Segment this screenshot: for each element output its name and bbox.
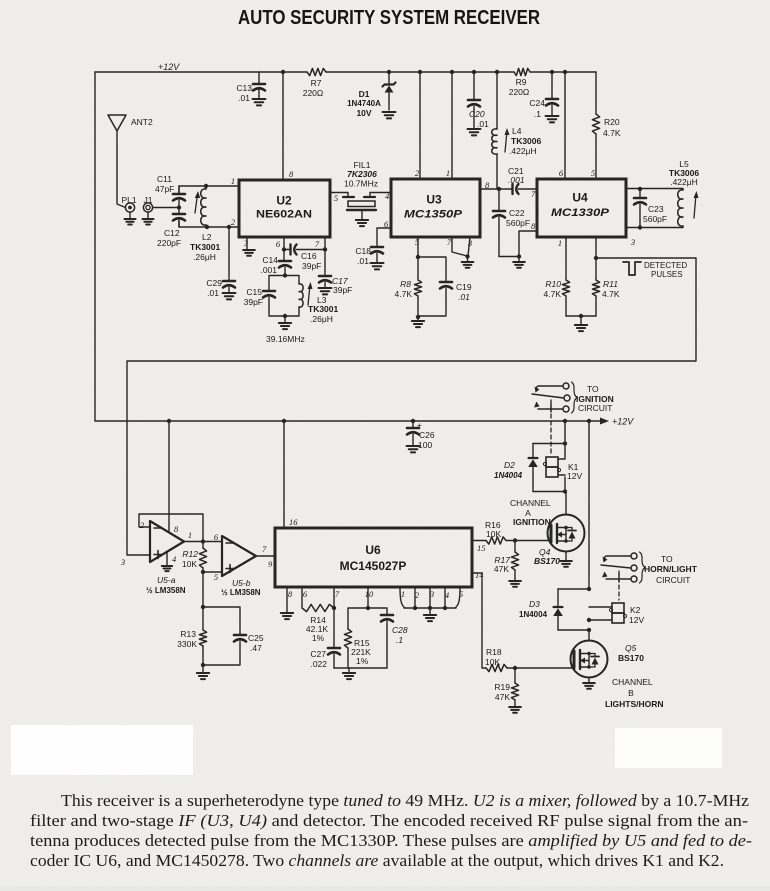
svg-text:1N4004: 1N4004 [494,471,523,480]
svg-text:U3: U3 [426,193,442,207]
svg-text:12V: 12V [629,615,644,625]
resistor R16 10K [485,520,506,544]
U4 pin numbers [531,168,635,248]
svg-text:3: 3 [630,237,635,247]
svg-text:C18: C18 [355,246,371,256]
ground for tank [279,316,291,329]
svg-text:L4: L4 [512,126,522,136]
switch horn/light contacts [601,552,645,583]
capacitor C23 560pF [634,189,667,228]
svg-text:10V: 10V [356,108,371,118]
svg-text:R8: R8 [400,279,411,289]
svg-text:PULSES: PULSES [651,270,683,279]
svg-text:14: 14 [475,570,484,580]
svg-text:K2: K2 [630,605,641,615]
svg-text:C20: C20 [469,109,485,119]
wire U3 pin 8 node [480,188,499,190]
svg-text:.022: .022 [310,659,327,669]
ground for C26 [407,446,420,452]
svg-text:100: 100 [418,440,432,450]
wire +12V top rail [95,71,596,73]
wire U2 pin 3 to ground [246,237,248,249]
wire R10/R11 bottoms [566,315,596,317]
inductor L3 TK3001 .26uH [299,282,339,324]
svg-text:1N4004: 1N4004 [519,610,548,619]
svg-text:.1: .1 [534,109,541,119]
svg-text:.001: .001 [508,175,525,185]
transistor Q4 BS170 MOSFET [534,515,585,567]
capacitor C18 .01 [355,228,391,266]
svg-text:1%: 1% [312,633,325,643]
svg-text:C24: C24 [529,98,545,108]
wire U5-a output [184,541,222,543]
ground for R8/C19 [412,317,424,327]
inductor L4 TK3006 .422uH [492,72,542,189]
capacitor C20 .01 [468,72,489,129]
svg-text:4.7K: 4.7K [603,128,621,138]
svg-text:10.7MHz: 10.7MHz [344,179,378,189]
resistor R15 221K 1% [344,629,371,668]
wire detected pulses to lower section [127,258,696,555]
svg-text:1: 1 [188,530,192,540]
svg-text:220Ω: 220Ω [509,87,530,97]
svg-text:C22: C22 [509,208,525,218]
svg-text:330K: 330K [177,639,197,649]
resistor R11 4.7K [592,258,619,316]
svg-text:U2: U2 [276,194,292,208]
wire Q5 source to ground [588,678,590,683]
svg-text:39pF: 39pF [302,261,321,271]
label CHANNEL A IGNITION [510,498,551,527]
svg-text:7K2306: 7K2306 [347,169,377,179]
svg-text:.26μH: .26μH [310,314,333,324]
svg-text:15: 15 [477,543,486,553]
svg-text:.01: .01 [207,288,219,298]
ground for J1 [142,212,153,224]
ground for U6 pins 1-5 [424,608,436,621]
U2 pin numbers [231,169,338,249]
svg-text:5: 5 [214,572,218,582]
wire U3 pin 2 to rail [419,72,421,179]
svg-text:C19: C19 [456,282,472,292]
wire 39.16MHz tank loop [269,276,299,317]
resistor R20 4.7K [592,72,620,179]
svg-text:NE602AN: NE602AN [256,209,312,221]
svg-text:TK3001: TK3001 [190,242,221,252]
svg-text:16: 16 [289,517,298,527]
wire R16 to Q4 gate [515,540,549,542]
wire J1 to C11/C12 node [153,207,179,209]
dashed link horn switch to K2 [618,571,620,600]
capacitor C24 .1 [529,72,558,119]
svg-text:R10: R10 [545,279,561,289]
svg-text:TO: TO [661,554,673,564]
capacitor C14 .001 [260,250,291,276]
svg-text:MC145027P: MC145027P [340,559,407,573]
wire U2 pin 6 down [283,237,285,250]
svg-text:R19: R19 [494,682,510,692]
wire U5-a feedback loop [139,514,203,542]
svg-text:CIRCUIT: CIRCUIT [578,403,612,413]
ground for R19 [509,707,521,713]
svg-text:C26: C26 [419,430,435,440]
svg-text:MC1350P: MC1350P [404,209,463,221]
resistor R9 220ohm [509,68,530,97]
wire U6 pin 15 out [472,540,515,542]
caption paragraph [30,791,752,870]
svg-text:.422μH: .422μH [509,146,537,156]
wire L4 bottom to node [497,188,499,190]
svg-text:C29: C29 [206,278,222,288]
wire C11 top to U2 pin 1 [179,186,239,194]
svg-text:D3: D3 [529,599,540,609]
svg-text:coder IC U6, and MC1450278. Tw: coder IC U6, and MC1450278. Two channels… [30,851,724,870]
svg-text:R20: R20 [604,117,620,127]
wire detected pulses node [595,237,597,258]
connector PL1 [121,195,136,212]
wire K1 branch top [533,421,565,459]
ground for C20 [468,129,481,135]
wire U6 pin 7 down [333,587,335,608]
svg-text:.001: .001 [260,265,277,275]
svg-text:This receiver is a superhetero: This receiver is a superheterodyne type … [61,791,749,810]
svg-text:+12V: +12V [612,417,634,427]
svg-text:R11: R11 [603,279,618,289]
svg-text:220Ω: 220Ω [303,88,324,98]
wire C27 bottom rail [334,667,387,669]
svg-text:4.7K: 4.7K [602,289,620,299]
capacitor C17 39pF [319,250,352,296]
ground for U5-a pin 4 [162,552,172,571]
svg-text:.1: .1 [396,635,403,645]
svg-text:R9: R9 [516,77,527,87]
svg-text:BS170: BS170 [534,556,560,566]
capacitor C26 100 electrolytic [407,421,435,450]
dashed link ignition switch to K1 [550,400,552,455]
wire K2 tabs to rail [589,607,612,620]
svg-text:U4: U4 [572,191,588,205]
svg-text:BS170: BS170 [618,653,644,663]
svg-text:C15: C15 [246,287,262,297]
svg-text:DETECTED: DETECTED [644,261,687,270]
capacitor C25 .47 [203,607,264,665]
whiteout rectangle right [615,728,722,768]
ground for U4 pin 8 [513,257,525,268]
ground for Q4 [560,561,572,567]
ground for C17 [319,288,332,294]
tank C23/L5 loop [626,189,683,228]
resistor R12 10K [182,542,207,573]
svg-text:LIGHTS/HORN: LIGHTS/HORN [605,699,664,709]
svg-text:J1: J1 [144,195,153,205]
svg-text:4.7K: 4.7K [395,289,413,299]
svg-text:ANT2: ANT2 [131,117,153,127]
IC U6 MC145027P [275,528,472,587]
wire D3 bottom branch [558,629,589,631]
svg-text:CHANNEL: CHANNEL [612,677,653,687]
svg-text:TO: TO [587,384,599,394]
capacitor C28 .1 [381,615,408,668]
svg-text:.01: .01 [357,256,369,266]
svg-text:10: 10 [365,589,374,599]
svg-text:R13: R13 [180,629,196,639]
wire U3 pin 5 node [417,237,419,257]
svg-text:TK3001: TK3001 [308,304,339,314]
ground for U3 pin 3 [462,257,474,268]
label TO IGNITION CIRCUIT [576,384,614,413]
wire Q4 drain up [565,492,567,515]
svg-text:4.7K: 4.7K [544,289,562,299]
svg-text:.26μH: .26μH [193,252,216,262]
resistor R19 47K [494,668,518,706]
wire U3 pin 1 to rail [451,72,453,179]
wire U6 pin 6 down [301,587,303,608]
resistor R8 4.7K [395,257,422,317]
svg-text:C11: C11 [157,174,172,184]
capacitor C21 .001 [499,166,537,194]
svg-text:1: 1 [446,168,450,178]
wire U4 pin 8 to ground [499,231,537,257]
svg-text:560pF: 560pF [506,218,530,228]
U5-b pin numbers [214,532,273,582]
diode D3 1N4004 [519,589,563,630]
ground for PL1 [124,212,135,224]
svg-text:1N4740A: 1N4740A [347,99,381,108]
svg-text:B: B [628,688,634,698]
diode D2 1N4004 [494,444,538,492]
whiteout rectangle left [11,725,193,775]
wire to Q5 drain [588,630,590,641]
wire K1 bottom branch [533,475,565,492]
filter FIL1 7K2306 10.7MHz [343,160,391,219]
transistor Q5 BS170 MOSFET [571,641,645,678]
U5-a pin numbers [120,520,192,567]
wire +12V lower rail [95,420,602,422]
antenna ANT2 [108,115,153,208]
label CHANNEL B LIGHTS/HORN [605,677,664,709]
svg-text:C14: C14 [262,255,278,265]
wire Q4 source to ground [565,552,567,561]
capacitor C13 .01 [236,72,265,103]
ground for R17 [509,581,521,587]
wire U2 pin 8 to rail [282,72,284,180]
svg-text:U5-b: U5-b [232,578,251,588]
svg-text:39pF: 39pF [244,297,263,307]
wire U6 pin 10 down [367,587,369,608]
connector J1 [143,195,152,212]
ground for R13/C25 [197,665,209,679]
wire left frame (+12V down to lower rail) [94,72,96,421]
svg-text:560pF: 560pF [643,214,667,224]
resistor R14 42.1K 1% [302,604,334,643]
wire U3 pins 7,3 to ground [452,237,470,256]
svg-text:1%: 1% [356,656,369,666]
wire U6 pins 1-5 to ground [400,587,460,608]
ground for C13 [253,99,266,105]
svg-text:.01: .01 [477,119,489,129]
wire U6 pin 14 out [472,573,515,668]
wire right +12V branch [588,421,590,589]
op-amp U5-b 1/2 LM358N [221,536,261,597]
svg-text:½ LM358N: ½ LM358N [221,588,261,597]
ground for C18 [371,263,384,269]
svg-text:C16: C16 [301,251,317,261]
svg-text:CIRCUIT: CIRCUIT [656,575,690,585]
relay K2 12V coil [609,603,644,625]
wire U5-b output to U6 pin 9 [256,555,275,557]
svg-text:1: 1 [401,589,405,599]
svg-text:Q5: Q5 [625,643,637,653]
svg-text:R12: R12 [182,549,198,559]
capacitor C12 220pF [157,208,185,249]
relay K1 12V coil [543,457,582,481]
capacitor C16 39pF [284,245,325,272]
svg-text:C27: C27 [310,649,326,659]
svg-text:C25: C25 [248,633,264,643]
IC U4 MC1330P [537,179,626,237]
capacitor C15 39pF [244,287,275,307]
U3 pin numbers [384,168,490,248]
svg-text:220pF: 220pF [157,238,181,248]
svg-text:1: 1 [231,176,235,186]
ground for C29 [223,293,236,299]
svg-text:C28: C28 [392,625,408,635]
ground for C27 node [343,668,355,679]
svg-text:47pF: 47pF [155,184,174,194]
svg-text:D1: D1 [359,89,370,99]
resistor R18 10K [485,647,507,672]
zener diode D1 1N4740A 10V [347,72,395,118]
svg-text:D2: D2 [504,460,515,470]
svg-text:+: + [417,421,422,430]
svg-text:TK3006: TK3006 [511,136,542,146]
svg-text:C23: C23 [648,204,664,214]
wire D3 top branch [558,588,589,590]
svg-text:PL1: PL1 [121,195,136,205]
svg-text:.422μH: .422μH [670,177,698,187]
svg-text:.01: .01 [458,292,470,302]
ground for U2 pin 3 [243,250,255,256]
svg-text:C13: C13 [236,83,252,93]
ground for U6 pin 8 [281,613,293,619]
IC U2 NE602AN [239,180,330,237]
svg-text:½ LM358N: ½ LM358N [146,586,186,595]
svg-text:R18: R18 [486,647,502,657]
wire R15/C28 loop top [348,608,387,629]
svg-text:39.16MHz: 39.16MHz [266,334,305,344]
capacitor C19 .01 [418,257,472,316]
svg-text:5: 5 [591,168,595,178]
capacitor C22 560pF [493,189,530,257]
svg-text:1: 1 [558,238,562,248]
wire U5-a pin 8 supply [168,421,170,531]
svg-text:filter and two-stage IF (U3, U: filter and two-stage IF (U3, U4) and det… [30,811,748,830]
svg-text:U6: U6 [365,543,381,557]
ground for Q5 [583,683,595,689]
svg-text:47K: 47K [494,564,509,574]
U6 pin numbers [288,517,486,600]
svg-text:.01: .01 [238,93,250,103]
ground for C24 [546,116,559,122]
svg-text:C12: C12 [164,228,180,238]
ground for R10/R11 [575,316,587,331]
wire R12 to U5-b pin 5 [203,571,222,573]
wire R18 to Q5 gate [515,667,574,669]
svg-text:10K: 10K [182,559,197,569]
op-amp U5-a 1/2 LM358N [146,521,186,595]
wire U2 pin 5 to FIL1 [330,193,348,197]
wire U6 pin 8 to ground [286,587,288,612]
ground for D1 [383,112,396,118]
capacitor C29 .01 [206,227,235,298]
svg-text:L2: L2 [202,232,212,242]
svg-text:.47: .47 [250,643,262,653]
resistor R13 330K [177,607,206,665]
wire C12 bottom to U2 pin 2 [179,221,239,228]
svg-text:CHANNEL: CHANNEL [510,498,551,508]
svg-text:R7: R7 [311,78,322,88]
inductor L5 TK3006 .422uH [669,159,700,226]
svg-text:MC1330P: MC1330P [551,207,610,219]
svg-text:IGNITION: IGNITION [513,517,551,527]
svg-text:HORN/LIGHT: HORN/LIGHT [644,564,698,574]
svg-text:AUTO SECURITY SYSTEM RECEIVER: AUTO SECURITY SYSTEM RECEIVER [238,7,540,29]
label DETECTED PULSES with pulse glyph [623,261,687,279]
svg-text:12V: 12V [567,471,582,481]
svg-text:+12V: +12V [158,62,180,72]
wire U2 pin 7 down [324,237,326,250]
svg-text:39pF: 39pF [333,285,352,295]
capacitor C27 .022 [310,608,340,669]
label TO HORN/LIGHT CIRCUIT [644,554,698,585]
inductor L2 TK3001 .26uH [190,186,221,262]
resistor R7 220ohm [303,68,326,98]
resistor R17 47K [494,541,519,581]
wire R12 node down to R13 [202,572,204,607]
svg-text:10K: 10K [486,529,501,539]
svg-text:tenna produces detected pulse: tenna produces detected pulse from the M… [30,831,752,850]
capacitor C11 47pF [155,174,185,208]
svg-text:47K: 47K [495,692,510,702]
svg-text:10K: 10K [485,657,500,667]
switch ignition contacts [532,382,577,413]
ground for FIL1 [356,220,368,226]
wire U4 pin 6 to rail [564,72,566,179]
resistor R10 4.7K [544,237,570,316]
svg-text:3: 3 [120,557,125,567]
svg-text:U5-a: U5-a [157,575,176,585]
IC U3 MC1350P [391,179,480,237]
wire U6 pin 16 to rail [283,421,285,528]
svg-text:5: 5 [334,193,338,203]
